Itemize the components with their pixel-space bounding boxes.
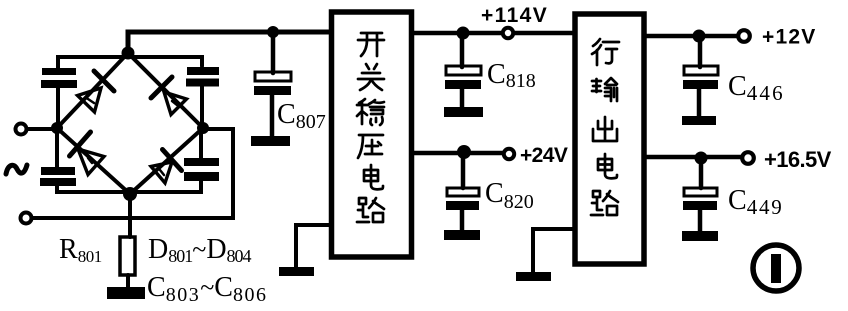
- node junction C818: [457, 27, 470, 40]
- terminal +114V: [503, 28, 513, 38]
- capacitor C807 electrolytic: [254, 34, 291, 136]
- figure number 1 in circle: [753, 245, 799, 291]
- wire box U2 ground lead: [533, 229, 575, 272]
- wire AC bottom terminal around to bridge right node: [32, 129, 233, 218]
- capacitor C449 electrolytic: [683, 160, 717, 231]
- ground C446: [682, 116, 716, 125]
- capacitor C820 electrolytic: [446, 154, 479, 230]
- terminal +16.5V: [742, 152, 754, 164]
- wire R801 to ground: [126, 275, 130, 289]
- box U2 line output circuit: [575, 14, 644, 264]
- svg-text:D801~D804: D801~D804: [148, 234, 252, 266]
- diode D803 bottom-left (cathode bar near left node): [70, 132, 105, 175]
- AC tilde symbol: [6, 165, 27, 174]
- svg-text:C446: C446: [728, 71, 785, 105]
- svg-text:+24V: +24V: [520, 144, 568, 167]
- text U2: 行输出电路 vertical (hand-drawn strokes): [591, 39, 619, 215]
- node bridge left: [51, 122, 63, 134]
- node junction C449: [695, 152, 708, 165]
- svg-text:C807: C807: [277, 99, 326, 133]
- resistor R801: [120, 237, 135, 275]
- text U1: 开关稳压电路 vertical (hand-drawn strokes): [357, 33, 384, 222]
- node bridge right: [197, 122, 209, 134]
- svg-text:C803~C806: C803~C806: [147, 272, 267, 306]
- wire +24V from box U1: [413, 151, 503, 156]
- wire box U1 ground lead: [296, 225, 331, 267]
- wire +16.5V output: [645, 155, 741, 160]
- ground box U2: [516, 272, 551, 281]
- svg-text:C820: C820: [485, 178, 534, 213]
- diode D804 bottom-right (cathode bar near right node): [151, 150, 182, 184]
- wire + capacitor C806 bottom-right corner: [134, 131, 219, 192]
- node junction C820: [457, 145, 471, 159]
- diode D801 top-left (cathode at top node): [78, 71, 115, 112]
- wire AC top terminal to bridge left node: [27, 127, 57, 131]
- svg-text:+114V: +114V: [481, 4, 548, 27]
- ground C807: [251, 136, 290, 146]
- terminal +12V: [738, 30, 750, 42]
- terminal +24V: [504, 149, 514, 159]
- wire top rail from bridge to box U1: [128, 32, 330, 54]
- ground C820: [444, 230, 480, 240]
- wire bridge diamond: [57, 53, 203, 194]
- ground C818: [444, 107, 483, 117]
- svg-text:C449: C449: [728, 185, 784, 219]
- ground box U1: [279, 267, 314, 276]
- box U1 switching regulator: [332, 12, 412, 257]
- diode D802 top-right (cathode bar near top node): [151, 77, 187, 115]
- node junction C807: [267, 26, 279, 38]
- wire rail box U1 to box U2 (+114V rail): [413, 31, 574, 36]
- wire bottom node to R801: [128, 194, 132, 237]
- terminal AC input top: [16, 124, 27, 135]
- svg-text:+12V: +12V: [762, 26, 816, 49]
- wire +12V output: [645, 34, 738, 39]
- node junction C446: [693, 30, 706, 43]
- wire + capacitor C804 top-right corner: [131, 57, 219, 124]
- ground C449: [682, 231, 718, 241]
- capacitor C446 electrolytic: [683, 38, 718, 116]
- wire + capacitor C805 bottom-left corner: [40, 131, 126, 192]
- svg-text:+16.5V: +16.5V: [764, 147, 832, 172]
- svg-text:R801: R801: [59, 234, 102, 266]
- wire + capacitor C803 top-left corner: [41, 57, 128, 124]
- node bridge bottom: [123, 187, 137, 201]
- ground R801: [107, 287, 145, 299]
- node bridge top: [122, 47, 135, 60]
- capacitor C818 electrolytic: [445, 35, 481, 107]
- svg-text:C818: C818: [487, 59, 536, 92]
- terminal AC input bottom: [21, 213, 32, 224]
